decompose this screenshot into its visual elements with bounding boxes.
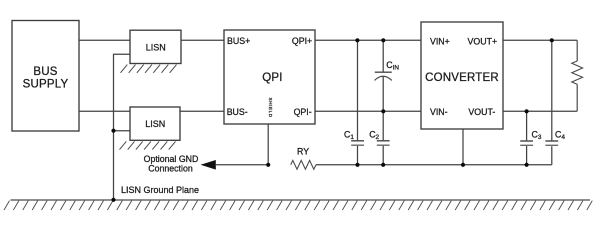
ground symbol under LISN L2 bbox=[120, 141, 176, 149]
ground symbol under LISN L1 bbox=[121, 65, 177, 73]
svg-text:SUPPLY: SUPPLY bbox=[23, 79, 69, 91]
wire QPI+ to converter VIN+ bbox=[315, 39, 421, 41]
svg-text:C1: C1 bbox=[344, 130, 354, 142]
svg-text:C2: C2 bbox=[369, 130, 379, 142]
LISN box L1 bbox=[130, 30, 181, 63]
wire LISN2 ground tap bbox=[114, 130, 131, 132]
capacitor C1 branch wire bbox=[357, 40, 359, 165]
svg-text:LISN: LISN bbox=[146, 42, 166, 52]
svg-text:VOUT+: VOUT+ bbox=[468, 37, 498, 47]
wire shield bottom rail bbox=[216, 164, 552, 166]
wire VOUT+ to load resistor bbox=[503, 39, 577, 41]
node: CIN top junction bbox=[381, 38, 385, 42]
svg-text:CONVERTER: CONVERTER bbox=[425, 72, 499, 84]
capacitor C4 branch wire bbox=[551, 40, 553, 165]
svg-text:VOUT-: VOUT- bbox=[468, 107, 495, 117]
svg-text:CIN: CIN bbox=[386, 60, 399, 72]
resistor RY bbox=[291, 160, 316, 169]
capacitor C2 branch wire bbox=[382, 111, 384, 165]
svg-text:QPI+: QPI+ bbox=[292, 36, 312, 46]
node: C2 bottom junction bbox=[381, 163, 385, 167]
wire LISN ground vertical bbox=[114, 54, 131, 200]
LISN box L2 bbox=[130, 107, 180, 140]
capacitor CIN branch wire bbox=[382, 40, 384, 111]
svg-text:BUS+: BUS+ bbox=[227, 36, 250, 46]
svg-text:C3: C3 bbox=[532, 130, 542, 142]
svg-text:SHIELD: SHIELD bbox=[268, 98, 273, 118]
svg-text:RY: RY bbox=[297, 147, 309, 157]
capacitor C1 bbox=[351, 141, 364, 145]
svg-text:BUS-: BUS- bbox=[227, 107, 248, 117]
capacitor CIN bbox=[375, 72, 392, 80]
node: C1 bottom junction bbox=[355, 163, 359, 167]
capacitor C2 bbox=[377, 141, 390, 145]
wire QPI- to converter VIN- bbox=[315, 110, 421, 112]
node: C3 bottom junction bbox=[525, 163, 529, 167]
bus supply box bbox=[12, 21, 79, 132]
svg-text:QPI: QPI bbox=[262, 72, 282, 84]
wire LISN2 to QPI BUS- bbox=[180, 110, 224, 112]
svg-text:VIN+: VIN+ bbox=[430, 37, 450, 47]
node: ground plane junction bbox=[111, 198, 115, 202]
node: converter pin junction bbox=[461, 163, 465, 167]
node: C4 top junction bbox=[550, 38, 554, 42]
wire VOUT- to load resistor bottom bbox=[503, 110, 577, 112]
node: shield rail junction bbox=[266, 163, 270, 167]
svg-text:Connection: Connection bbox=[148, 164, 193, 174]
node: LISN2 ground junction bbox=[111, 129, 115, 133]
node: CIN/C2 mid junction bbox=[381, 109, 385, 113]
svg-text:LISN: LISN bbox=[145, 119, 165, 129]
wire BUS- supply to LISN2 bbox=[79, 110, 130, 112]
svg-text:LISN Ground Plane: LISN Ground Plane bbox=[121, 185, 199, 195]
QPI filter box U1 bbox=[224, 30, 315, 124]
ground plane bbox=[4, 200, 592, 210]
capacitor C3 branch wire bbox=[526, 111, 528, 165]
svg-text:C4: C4 bbox=[555, 130, 565, 142]
svg-text:BUS: BUS bbox=[33, 66, 57, 78]
svg-text:Optional GND: Optional GND bbox=[144, 154, 199, 164]
svg-text:QPI-: QPI- bbox=[294, 107, 312, 117]
capacitor C3 bbox=[520, 141, 533, 145]
node: C1 top junction bbox=[355, 38, 359, 42]
wire converter baseplate pin bbox=[462, 129, 464, 165]
wire QPI shield pin bbox=[267, 124, 269, 165]
wire load resistor leads bbox=[576, 40, 578, 111]
load resistor R1 bbox=[572, 61, 583, 84]
converter box U2 bbox=[421, 22, 503, 129]
arrow optional gnd connection bbox=[201, 160, 216, 170]
node: C3 top junction bbox=[525, 109, 529, 113]
capacitor C4 bbox=[545, 141, 558, 145]
wire BUS+ supply to LISN1 bbox=[79, 39, 130, 41]
wire LISN1 to QPI BUS+ bbox=[181, 39, 224, 41]
svg-text:VIN-: VIN- bbox=[430, 107, 448, 117]
